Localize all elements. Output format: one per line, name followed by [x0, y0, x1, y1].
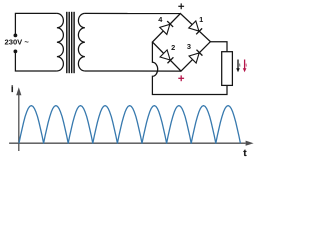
svg-text:1: 1: [199, 15, 203, 24]
svg-text:2: 2: [171, 43, 175, 52]
svg-text:i: i: [11, 84, 14, 94]
svg-text:3: 3: [187, 42, 191, 51]
svg-text:230V ~: 230V ~: [5, 37, 30, 46]
